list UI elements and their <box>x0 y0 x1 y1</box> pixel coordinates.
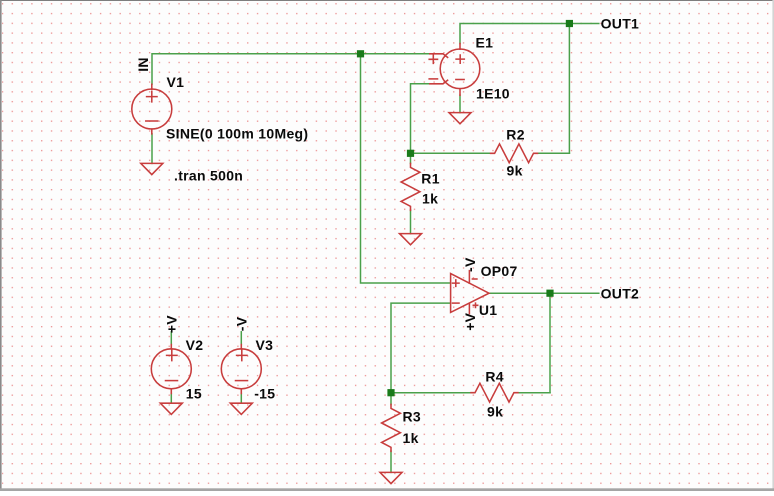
node junction R3/R4 <box>387 389 394 396</box>
svg-text:+V: +V <box>163 315 179 333</box>
svg-text:9k: 9k <box>507 162 523 178</box>
svg-text:-V: -V <box>462 257 478 272</box>
resistor R2 <box>491 144 538 163</box>
wire op-amp out to OUT2 <box>489 292 599 294</box>
window border left <box>0 0 2 491</box>
svg-text:IN: IN <box>135 57 151 72</box>
voltage source V3 <box>221 345 261 394</box>
svg-text:9k: 9k <box>487 404 503 420</box>
voltage source V2 <box>151 345 191 394</box>
wire R1 node to R2 left <box>411 152 491 154</box>
ground (E1) <box>449 113 471 124</box>
wire V3 flag stub <box>240 332 242 345</box>
svg-text:-V: -V <box>234 316 250 331</box>
svg-text:V2: V2 <box>186 337 204 353</box>
ground (V3) <box>230 403 252 414</box>
window border top <box>0 0 774 1</box>
svg-text:OP07: OP07 <box>481 263 518 279</box>
wire OUT1 down to R2 right <box>568 24 570 154</box>
node junction OUT2 <box>546 290 553 297</box>
svg-text:R1: R1 <box>421 170 440 186</box>
node junction R1/R2/E1- <box>407 150 414 157</box>
wire OUT2 node down to R4 right <box>549 293 551 393</box>
ground (R1) <box>400 234 422 245</box>
wire V2 bottom to ground <box>170 394 172 404</box>
svg-text:U1: U1 <box>479 302 498 318</box>
wire V2 flag stub <box>170 332 172 345</box>
wire R3 node to R4 left <box>391 392 471 394</box>
resistor R1 <box>401 163 420 210</box>
node junction OUT1 <box>566 20 573 27</box>
wire E1 out to OUT1 <box>460 24 599 44</box>
wire R3 leads <box>390 393 392 405</box>
wire IN net: V1 top to E1 control + <box>152 54 430 85</box>
ground (R3) <box>380 472 402 483</box>
svg-text:R2: R2 <box>506 127 525 143</box>
svg-text:R3: R3 <box>403 409 422 425</box>
node junction IN <box>357 50 364 57</box>
svg-text:.tran 500n: .tran 500n <box>174 167 243 183</box>
wire R2 right segment <box>537 152 569 154</box>
VCVS E1 <box>429 44 480 96</box>
wire E1 control - to R1 top node <box>411 84 430 154</box>
svg-text:E1: E1 <box>476 34 494 50</box>
wire junction IN to op-amp +in <box>361 54 451 283</box>
svg-text:V3: V3 <box>256 337 274 353</box>
ground (V1) <box>141 163 163 174</box>
svg-text:R4: R4 <box>485 369 504 385</box>
voltage source V1 <box>132 84 172 134</box>
wire op-amp -in to R3 node <box>391 303 451 393</box>
svg-text:SINE(0 100m 10Meg): SINE(0 100m 10Meg) <box>166 126 308 142</box>
svg-text:1k: 1k <box>403 430 419 446</box>
wire V1 bottom to ground <box>151 134 153 164</box>
window border right <box>772 0 774 491</box>
svg-text:-15: -15 <box>254 385 275 401</box>
svg-text:15: 15 <box>186 385 202 401</box>
wire R1 leads <box>410 153 412 163</box>
wire E1 bottom to ground <box>459 95 461 112</box>
op-amp U1 <box>451 271 489 314</box>
svg-text:V1: V1 <box>167 74 185 90</box>
svg-text:+V: +V <box>462 312 478 330</box>
resistor R3 <box>382 404 401 451</box>
svg-text:1E10: 1E10 <box>476 85 510 101</box>
wire V3 bottom to ground <box>240 394 242 404</box>
svg-text:OUT2: OUT2 <box>601 286 640 302</box>
ground (V2) <box>160 403 182 414</box>
resistor R4 <box>471 383 518 402</box>
svg-text:OUT1: OUT1 <box>601 16 640 32</box>
svg-text:1k: 1k <box>422 191 438 207</box>
wire R4 right segment <box>518 392 550 394</box>
window border bottom <box>0 488 774 491</box>
